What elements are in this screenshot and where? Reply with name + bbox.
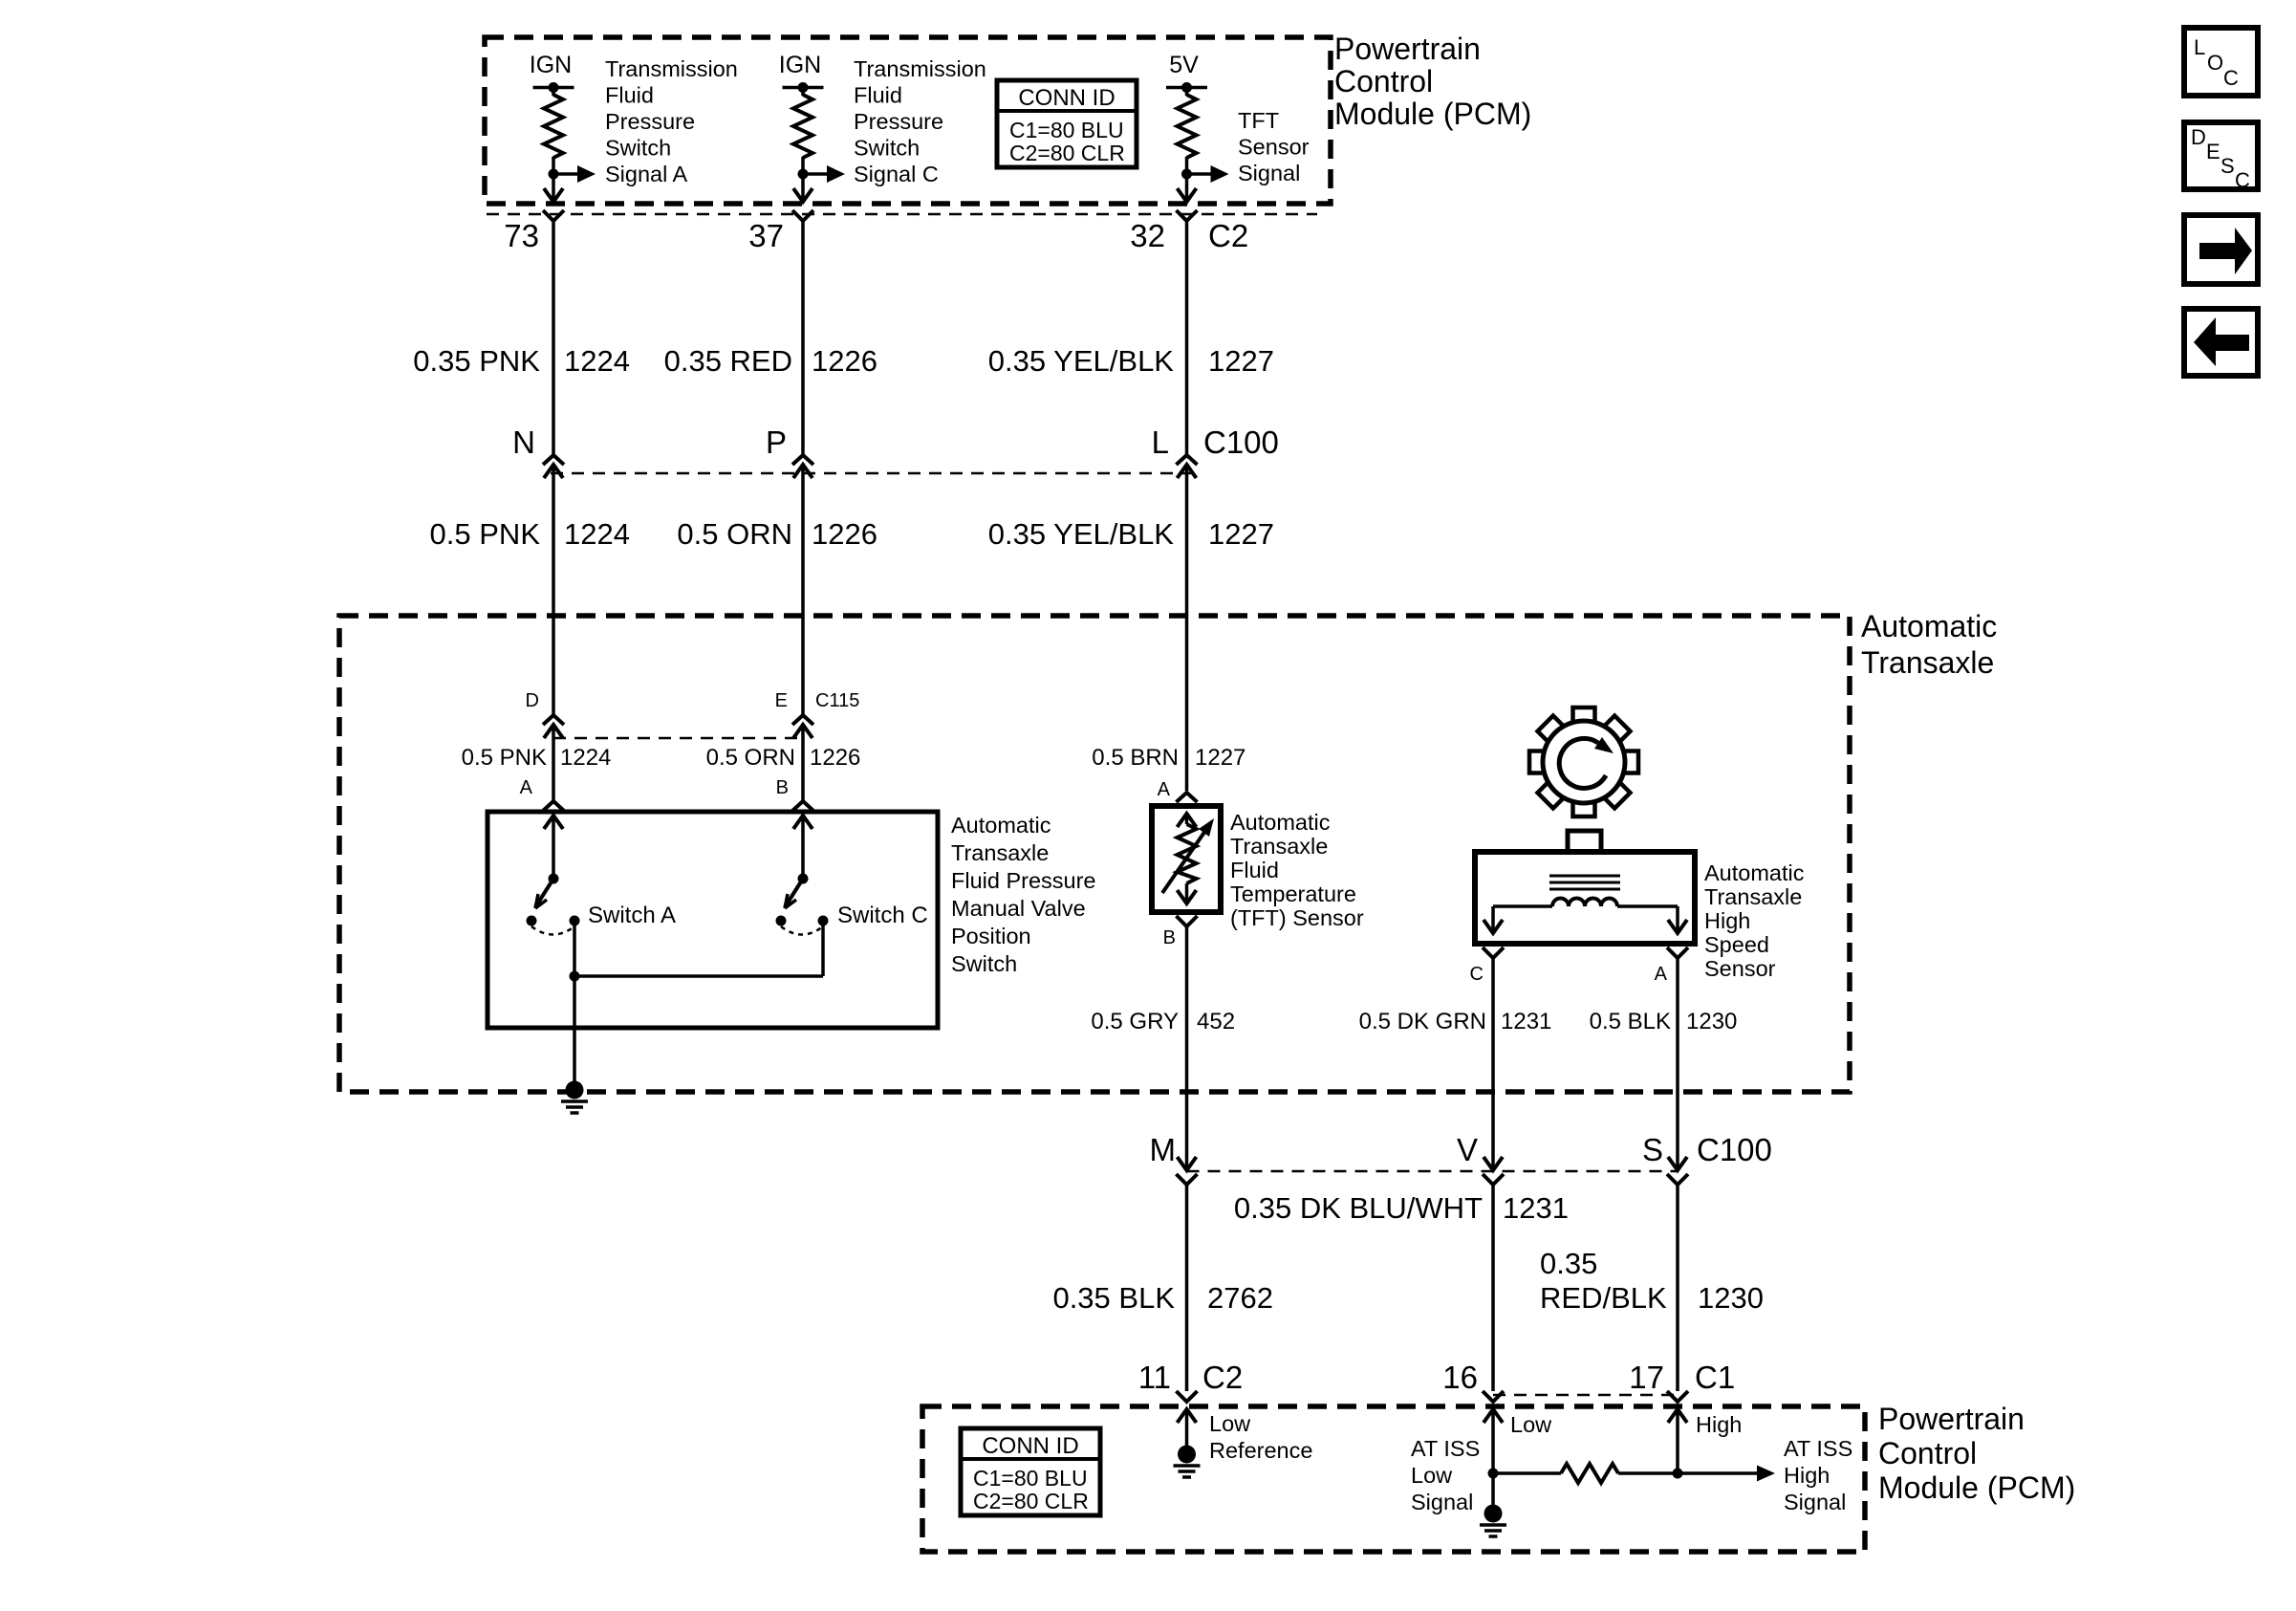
svg-text:73: 73	[504, 218, 539, 253]
svg-text:IGN: IGN	[530, 52, 572, 78]
label pin 37	[748, 218, 784, 253]
wire 1230 BLK (sensor to C100)	[1676, 958, 1679, 1168]
label pin V	[1457, 1132, 1478, 1167]
CONN ID table (top)	[997, 80, 1137, 167]
svg-text:S: S	[1642, 1132, 1663, 1167]
switch Switch C pivot	[798, 874, 809, 884]
svg-text:Speed: Speed	[1704, 932, 1769, 957]
speed sensor coil	[1484, 899, 1687, 934]
connector fork at pin B	[792, 801, 813, 811]
svg-text:Manual Valve: Manual Valve	[951, 896, 1086, 921]
svg-text:Transaxle: Transaxle	[1704, 884, 1802, 909]
node signal tap	[1181, 165, 1229, 183]
label 0.35 YEL/BLK 1227 row2	[988, 517, 1274, 551]
svg-text:D: D	[2191, 125, 2206, 149]
label Low Reference	[1209, 1411, 1312, 1463]
label pin 11 C2	[1138, 1360, 1243, 1395]
svg-text:0.35 PNK: 0.35 PNK	[413, 344, 540, 378]
svg-text:Switch A: Switch A	[588, 903, 676, 928]
label 0.5 ORN 1226	[677, 517, 877, 551]
wire into switch Switch C	[793, 816, 812, 879]
svg-text:0.5 PNK: 0.5 PNK	[430, 517, 541, 551]
connector fork pin 11	[1177, 1391, 1198, 1402]
label Switch C	[837, 903, 928, 928]
svg-text:0.5 DK GRN: 0.5 DK GRN	[1359, 1009, 1486, 1034]
wire 1226 RED (PCM to C100)	[801, 221, 805, 455]
CONN ID table (bottom)	[961, 1428, 1100, 1515]
svg-text:Switch: Switch	[605, 136, 671, 161]
svg-text:Transaxle: Transaxle	[1861, 645, 1994, 680]
TFT sensor box	[1152, 806, 1221, 912]
svg-text:Signal: Signal	[1238, 161, 1300, 185]
svg-text:TFT: TFT	[1238, 108, 1279, 133]
svg-text:C: C	[2235, 168, 2250, 192]
label 0.5 PNK 1224 row3	[462, 745, 612, 771]
label Low (pin 16)	[1510, 1412, 1552, 1437]
svg-text:Transaxle: Transaxle	[1230, 834, 1328, 859]
connector C115 terminal pair E	[792, 715, 813, 738]
switch Switch A common contact	[570, 916, 580, 926]
connector C100 terminal pair V	[1483, 1157, 1504, 1185]
switch Switch C blade	[785, 879, 803, 908]
switch Switch C throw arc	[781, 926, 823, 935]
svg-text:M: M	[1150, 1132, 1177, 1167]
svg-text:Fluid: Fluid	[854, 83, 902, 108]
wire resistor to junction	[1618, 1471, 1678, 1475]
svg-text:Fluid Pressure: Fluid Pressure	[951, 868, 1096, 893]
label 0.5 BLK 1230	[1590, 1009, 1738, 1034]
label 0.5 BRN 1227	[1092, 745, 1245, 771]
label pin E C115	[775, 690, 860, 711]
label Transmission Fluid Pressure Switch Signal A	[605, 56, 738, 186]
connector C2 dashed line	[487, 213, 1317, 216]
svg-text:High: High	[1784, 1463, 1830, 1488]
svg-text:A: A	[1655, 964, 1668, 985]
svg-text:C1: C1	[1695, 1360, 1735, 1395]
svg-text:P: P	[766, 425, 787, 460]
connector fork pin 17	[1667, 1391, 1688, 1402]
ground AT ISS low	[1480, 1505, 1506, 1537]
connector C100 dashed line	[551, 472, 1195, 475]
connector fork pin 16	[1483, 1391, 1504, 1402]
label Powertrain Control Module (PCM) bottom	[1878, 1402, 2075, 1505]
svg-text:E: E	[775, 690, 788, 711]
svg-text:(TFT) Sensor: (TFT) Sensor	[1230, 905, 1364, 930]
label 0.35 YEL/BLK 1227	[988, 344, 1274, 378]
svg-text:1224: 1224	[560, 745, 611, 771]
wire to connector pin	[793, 174, 812, 202]
label pin A TFT	[1158, 779, 1171, 800]
label Switch A	[588, 903, 676, 928]
connector fork at pin A	[543, 801, 564, 811]
svg-text:0.35 YEL/BLK: 0.35 YEL/BLK	[988, 517, 1175, 551]
svg-text:Module (PCM): Module (PCM)	[1334, 97, 1531, 131]
wire into switch Switch A	[544, 816, 563, 879]
label 0.35 BLK 2762	[1052, 1281, 1273, 1315]
svg-text:Signal: Signal	[1784, 1490, 1846, 1514]
icon box arrow left	[2184, 309, 2258, 376]
label AT ISS High Signal	[1784, 1436, 1852, 1514]
label pin 32 C2	[1130, 218, 1248, 253]
svg-text:AT ISS: AT ISS	[1411, 1436, 1480, 1461]
svg-text:Position: Position	[951, 924, 1031, 948]
connector C100 lower dashed line	[1187, 1170, 1679, 1173]
connector C100 terminal pair	[1177, 455, 1198, 478]
label Transmission Fluid Pressure Switch Signal C	[854, 56, 986, 186]
svg-text:B: B	[1163, 927, 1176, 948]
svg-text:A: A	[520, 777, 533, 798]
label 0.35 PNK 1224	[413, 344, 630, 378]
svg-text:Signal C: Signal C	[854, 162, 939, 186]
label pin L C100	[1152, 425, 1279, 460]
svg-text:37: 37	[748, 218, 784, 253]
svg-text:1230: 1230	[1698, 1281, 1764, 1315]
wire to connector pin	[1178, 174, 1197, 202]
svg-text:Low: Low	[1510, 1412, 1552, 1437]
PCM module outline (top dashed box)	[485, 37, 1331, 204]
label 0.35 RED 1226	[664, 344, 877, 378]
wire 1230 RED/BLK (C100 to PCM)	[1676, 1185, 1679, 1391]
svg-text:C2: C2	[1202, 1360, 1243, 1395]
svg-text:1231: 1231	[1501, 1009, 1551, 1034]
svg-text:V: V	[1457, 1132, 1478, 1167]
AT ISS low input arrow	[1484, 1409, 1503, 1473]
svg-text:C100: C100	[1203, 425, 1279, 460]
svg-text:Automatic: Automatic	[1704, 860, 1805, 885]
svg-text:1224: 1224	[564, 344, 630, 378]
svg-text:Automatic: Automatic	[951, 813, 1051, 838]
label pin N	[512, 425, 535, 460]
svg-text:1227: 1227	[1208, 517, 1274, 551]
PCM module outline (bottom dashed box)	[922, 1406, 1865, 1552]
label 0.5 DK GRN 1231	[1359, 1009, 1552, 1034]
connector C115 dashed line	[553, 737, 803, 740]
resistor IGN pull-up	[793, 88, 812, 175]
svg-text:Transaxle: Transaxle	[951, 840, 1049, 865]
svg-text:Signal: Signal	[1411, 1490, 1473, 1514]
label Automatic Transaxle	[1861, 609, 1997, 680]
connector pin 32 fork	[1177, 210, 1198, 221]
icon box DESC	[2184, 122, 2258, 192]
node 5V rail	[1166, 52, 1207, 93]
svg-text:1230: 1230	[1686, 1009, 1737, 1034]
connector fork TFT A	[1177, 793, 1198, 802]
junction switch commons	[570, 971, 580, 982]
svg-text:11: 11	[1138, 1360, 1171, 1395]
svg-text:1227: 1227	[1195, 745, 1245, 771]
svg-text:1224: 1224	[564, 517, 630, 551]
svg-text:1231: 1231	[1503, 1191, 1569, 1225]
wire 1227 YEL/BLK (C100 to TFT)	[1185, 465, 1189, 791]
label pin A sensor	[1655, 964, 1668, 985]
wire to connector pin	[544, 174, 563, 202]
connector C115 terminal pair D	[543, 715, 564, 738]
wire 1224 PNK (C100 to C115)	[552, 465, 555, 715]
svg-text:Powertrain: Powertrain	[1334, 32, 1481, 66]
svg-text:Switch: Switch	[854, 136, 920, 161]
wire 1226 ORN (C115 to switch)	[801, 725, 805, 801]
connector fork TFT B	[1177, 916, 1198, 926]
svg-text:C2=80 CLR: C2=80 CLR	[973, 1489, 1089, 1513]
svg-text:0.5 GRY: 0.5 GRY	[1091, 1009, 1179, 1034]
icon box LOC	[2184, 28, 2258, 96]
svg-text:Temperature: Temperature	[1230, 882, 1356, 906]
svg-text:IGN: IGN	[779, 52, 821, 78]
label 0.5 GRY 452	[1091, 1009, 1235, 1034]
resistor AT ISS internal	[1561, 1464, 1618, 1483]
label 0.5 ORN 1226 row3	[706, 745, 861, 771]
Automatic Transaxle High Speed Sensor box	[1475, 852, 1695, 944]
label pin M	[1150, 1132, 1177, 1167]
TFT variable arrow	[1162, 818, 1214, 893]
connector pin 37 fork	[792, 210, 813, 221]
svg-text:Control: Control	[1334, 64, 1433, 98]
junction AT ISS high	[1673, 1469, 1683, 1479]
svg-text:5V: 5V	[1169, 52, 1199, 78]
wire to ground	[573, 976, 576, 1090]
low reference input arrow	[1178, 1409, 1197, 1454]
speed sensor mounting tab	[1568, 831, 1601, 852]
wire to internal resistor	[1493, 1471, 1561, 1475]
svg-text:Fluid: Fluid	[605, 83, 654, 108]
label Automatic Transaxle Fluid Pressure Manual Valve Position Switch	[951, 813, 1096, 976]
svg-text:1226: 1226	[812, 344, 877, 378]
svg-text:A: A	[1158, 779, 1171, 800]
svg-text:C1=80 BLU: C1=80 BLU	[973, 1466, 1088, 1491]
junction AT ISS low	[1488, 1469, 1499, 1479]
svg-text:L: L	[1152, 425, 1169, 460]
svg-text:Sensor: Sensor	[1704, 956, 1776, 981]
svg-text:0.5 BRN: 0.5 BRN	[1092, 745, 1179, 771]
svg-text:1227: 1227	[1208, 344, 1274, 378]
svg-text:C: C	[1470, 964, 1484, 985]
label Automatic Transaxle High Speed Sensor	[1704, 860, 1805, 981]
label pin S C100	[1642, 1132, 1772, 1167]
label pin P	[766, 425, 787, 460]
switch Switch A blade	[535, 879, 553, 908]
svg-text:0.35 BLK: 0.35 BLK	[1052, 1281, 1175, 1315]
switch Switch A open contact	[527, 916, 537, 926]
svg-text:Switch: Switch	[951, 951, 1017, 976]
svg-text:Powertrain: Powertrain	[1878, 1402, 2025, 1436]
svg-text:Reference: Reference	[1209, 1438, 1312, 1463]
connector C1 dashed line	[1493, 1394, 1678, 1397]
wire 1231 DK GRN (sensor to C100)	[1491, 958, 1495, 1168]
svg-text:2762: 2762	[1207, 1281, 1273, 1315]
svg-text:1226: 1226	[810, 745, 860, 771]
label pin A switch	[520, 777, 533, 798]
connector C100 terminal pair	[543, 455, 564, 478]
svg-text:C115: C115	[815, 690, 859, 711]
Manual Valve Position Switch box	[487, 812, 938, 1028]
svg-text:Transmission: Transmission	[605, 56, 738, 81]
wire 452 GRY (TFT to C100)	[1185, 926, 1189, 1168]
svg-text:C: C	[2223, 66, 2239, 90]
wire 1231 DK BLU/WHT (C100 to PCM)	[1491, 1185, 1495, 1391]
ground low reference	[1174, 1446, 1201, 1478]
svg-text:Module (PCM): Module (PCM)	[1878, 1470, 2075, 1505]
svg-text:CONN ID: CONN ID	[982, 1433, 1078, 1459]
svg-text:0.35: 0.35	[1540, 1247, 1597, 1280]
svg-text:0.5 BLK: 0.5 BLK	[1590, 1009, 1671, 1034]
label pin D	[526, 690, 539, 711]
node signal tap	[549, 165, 596, 183]
wire 2762 BLK (C100 to PCM)	[1185, 1185, 1189, 1391]
switch Switch C open contact	[776, 916, 787, 926]
label pin B switch	[776, 777, 789, 798]
svg-text:D: D	[526, 690, 539, 711]
label TFT Sensor Signal	[1238, 108, 1310, 185]
gear icon (reluctor wheel)	[1529, 708, 1638, 816]
speed sensor core	[1549, 876, 1620, 889]
svg-text:Automatic: Automatic	[1230, 810, 1331, 835]
svg-text:Pressure: Pressure	[605, 109, 695, 134]
label pin B TFT	[1163, 927, 1176, 948]
AT ISS high signal output arrow	[1678, 1466, 1775, 1482]
connector fork sensor C	[1483, 947, 1504, 958]
connector C100 terminal pair M	[1177, 1157, 1198, 1185]
svg-text:Control: Control	[1878, 1436, 1977, 1470]
wire switch A common down	[573, 921, 576, 976]
wire 1224 PNK (C115 to switch)	[552, 725, 555, 801]
label 0.35 DK BLU/WHT 1231	[1234, 1191, 1569, 1225]
svg-text:0.5 ORN: 0.5 ORN	[706, 745, 795, 771]
svg-text:C1=80 BLU: C1=80 BLU	[1009, 118, 1124, 142]
wire 1224 PNK (PCM to C100)	[552, 221, 555, 455]
svg-text:S: S	[2220, 154, 2235, 178]
svg-text:32: 32	[1130, 218, 1165, 253]
svg-text:452: 452	[1197, 1009, 1235, 1034]
switch Switch C common contact	[818, 916, 829, 926]
svg-text:C2: C2	[1208, 218, 1248, 253]
switch Switch A pivot	[549, 874, 559, 884]
wire 1226 ORN (C100 to C115)	[801, 465, 805, 715]
connector pin 73 fork	[543, 210, 564, 221]
resistor 5V pull-up	[1178, 88, 1197, 175]
connector C100 terminal pair S	[1667, 1157, 1688, 1185]
node IGN rail	[530, 52, 574, 93]
label 0.5 PNK 1224	[430, 517, 630, 551]
svg-text:E: E	[2206, 140, 2220, 163]
svg-text:Low: Low	[1411, 1463, 1453, 1488]
svg-text:0.35 YEL/BLK: 0.35 YEL/BLK	[988, 344, 1175, 378]
svg-text:C2=80 CLR: C2=80 CLR	[1009, 141, 1125, 165]
svg-text:AT ISS: AT ISS	[1784, 1436, 1852, 1461]
label AT ISS Low Signal	[1411, 1436, 1480, 1514]
wire 1227 YEL/BLK (PCM to C100)	[1185, 221, 1189, 455]
svg-text:Sensor: Sensor	[1238, 135, 1310, 160]
svg-text:0.35 DK BLU/WHT: 0.35 DK BLU/WHT	[1234, 1191, 1483, 1225]
svg-text:0.5 PNK: 0.5 PNK	[462, 745, 547, 771]
svg-text:C100: C100	[1697, 1132, 1772, 1167]
svg-text:Signal A: Signal A	[605, 162, 688, 186]
AT ISS high input arrow	[1668, 1409, 1687, 1473]
connector C100 terminal pair	[792, 455, 813, 478]
label pin C sensor	[1470, 964, 1484, 985]
svg-text:RED/BLK: RED/BLK	[1540, 1281, 1667, 1315]
ground switch assembly	[561, 1081, 588, 1114]
svg-text:0.35 RED: 0.35 RED	[664, 344, 792, 378]
node IGN rail	[779, 52, 824, 93]
label High (pin 17)	[1696, 1412, 1742, 1437]
connector fork sensor A	[1667, 947, 1688, 958]
svg-text:Fluid: Fluid	[1230, 858, 1279, 882]
resistor IGN pull-up	[544, 88, 563, 175]
label Automatic Transaxle Fluid Temperature (TFT) Sensor	[1230, 810, 1364, 930]
svg-text:High: High	[1704, 908, 1750, 933]
label pin 73	[504, 218, 539, 253]
svg-text:CONN ID: CONN ID	[1018, 85, 1115, 111]
svg-text:0.5 ORN: 0.5 ORN	[677, 517, 792, 551]
svg-text:Pressure: Pressure	[854, 109, 943, 134]
TFT thermistor element	[1178, 814, 1197, 903]
svg-text:High: High	[1696, 1412, 1742, 1437]
switch Switch A throw arc	[531, 926, 574, 935]
svg-text:Low: Low	[1209, 1411, 1251, 1436]
wire common bus	[574, 921, 823, 976]
svg-text:N: N	[512, 425, 535, 460]
svg-text:B: B	[776, 777, 789, 798]
svg-text:L: L	[2194, 35, 2205, 59]
wire AT ISS low to ground	[1491, 1473, 1495, 1513]
label Powertrain Control Module (PCM) top	[1334, 32, 1531, 131]
svg-text:16: 16	[1442, 1360, 1478, 1395]
svg-text:17: 17	[1629, 1360, 1664, 1395]
node signal tap	[798, 165, 846, 183]
Automatic Transaxle outline (dashed box)	[339, 616, 1850, 1092]
svg-text:Switch C: Switch C	[837, 903, 928, 928]
svg-text:O: O	[2207, 51, 2223, 75]
label 0.35 RED/BLK 1230	[1540, 1247, 1764, 1315]
svg-text:Transmission: Transmission	[854, 56, 986, 81]
svg-text:Automatic: Automatic	[1861, 609, 1997, 643]
label pin 16	[1442, 1360, 1478, 1395]
svg-text:1226: 1226	[812, 517, 877, 551]
icon box arrow right	[2184, 215, 2258, 284]
label pin 17 C1	[1629, 1360, 1735, 1395]
